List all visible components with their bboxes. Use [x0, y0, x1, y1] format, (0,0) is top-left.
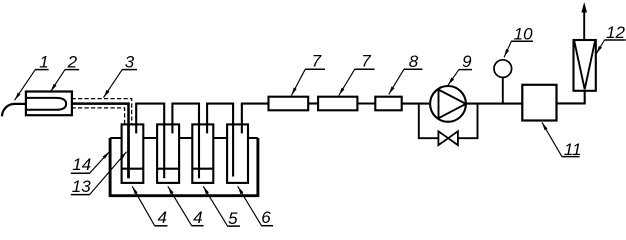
water bath 14 outline [110, 138, 258, 196]
label 7b leader [339, 69, 355, 95]
svg-text:11: 11 [564, 140, 582, 159]
label 14 arrowhead [103, 152, 110, 159]
label 4a underline [155, 225, 168, 227]
crossover pipe impinger1 to impinger2 [135, 104, 164, 179]
label 4b underline [192, 225, 204, 227]
label 1 leader [15, 70, 36, 101]
bypass loop wire [419, 104, 478, 139]
label 13 arrowhead [120, 152, 127, 159]
impinger 2 outlet stub [171, 104, 173, 134]
wire box 11 to rotameter riser [557, 91, 585, 104]
label 3 leader [104, 70, 123, 98]
label 12 arrowhead [596, 46, 602, 54]
impinger 1 liquid level [122, 168, 144, 170]
heated line 3 lower dashed jacket [72, 108, 125, 125]
gauge 10 circle [494, 60, 512, 78]
svg-text:12: 12 [606, 23, 625, 42]
label 10 leader [504, 41, 511, 57]
label 6 arrowhead [238, 186, 244, 194]
label 5 leader [203, 186, 227, 226]
gauge 10 stem [502, 77, 504, 103]
label 5 underline [227, 225, 240, 227]
label 2 arrowhead [51, 84, 57, 92]
wire 7a to 7b [308, 102, 318, 104]
svg-text:1: 1 [39, 52, 48, 71]
label 13 underline [71, 194, 90, 196]
label 14 leader [90, 152, 110, 174]
probe holder box 2 [26, 92, 72, 116]
label 4a arrowhead [132, 186, 138, 194]
label 7b underline [355, 68, 375, 70]
svg-text:10: 10 [514, 25, 533, 44]
svg-text:5: 5 [228, 209, 238, 228]
label 8 underline [404, 68, 423, 70]
impinger 3 liquid level [192, 168, 213, 170]
impinger 4 (first absorber) body [122, 124, 144, 182]
label 7a leader [291, 69, 305, 95]
svg-text:4: 4 [157, 208, 166, 227]
label 2 leader [51, 70, 65, 92]
svg-text:3: 3 [125, 52, 135, 71]
svg-text:7: 7 [361, 52, 371, 71]
water bath rim segments [110, 137, 258, 139]
label 1 underline [35, 69, 49, 71]
svg-text:6: 6 [261, 208, 271, 227]
label 3 underline [122, 69, 137, 71]
impinger 6 (empty droplet trap) body [227, 124, 248, 182]
bypass valve [438, 131, 458, 145]
drier box 8 [375, 97, 401, 111]
svg-text:9: 9 [462, 52, 472, 71]
wire from impinger 6 outlet to filter 7a [241, 103, 269, 105]
heated line 3 upper dashed jacket [72, 99, 132, 125]
impinger 4 outlet stub [241, 104, 243, 134]
label 2 underline [65, 69, 79, 71]
label 11 underline [562, 156, 580, 158]
pump 9 triangle [439, 90, 466, 119]
impinger 1 dip tube lower part [127, 124, 130, 178]
label 12 underline [604, 39, 626, 41]
exhaust arrow head [581, 2, 587, 13]
impinger 3 outlet stub [206, 104, 208, 134]
rotameter 12 float taper [574, 41, 595, 89]
labels with leader lines [15, 40, 605, 226]
svg-text:8: 8 [409, 52, 419, 71]
label 9 underline [459, 69, 472, 71]
label 6 underline [261, 225, 273, 227]
label 6 leader [238, 186, 262, 225]
label 11 leader [542, 122, 562, 156]
label 4a leader [132, 186, 155, 226]
crossover pipe impinger3 to impinger4 [206, 104, 233, 177]
svg-text:2: 2 [67, 52, 78, 71]
heated sample line 3 (solid core) [72, 104, 129, 179]
label 7a arrowhead [291, 88, 296, 96]
label 13 leader [90, 152, 127, 195]
label 4b arrowhead [168, 186, 174, 194]
label 8 arrowhead [389, 86, 395, 94]
label 1 arrowhead [15, 93, 21, 101]
filter box 7b [318, 97, 357, 111]
label 8 leader [389, 69, 404, 94]
svg-text:14: 14 [72, 155, 91, 174]
label 9 leader [448, 70, 459, 86]
svg-text:7: 7 [312, 52, 322, 71]
wire pump to box 11 [466, 103, 523, 105]
label 7a underline [305, 68, 325, 70]
probe inner tube [26, 98, 66, 110]
label 10 underline [511, 40, 533, 42]
rotameter 12 body [574, 40, 596, 91]
label 5 arrowhead [203, 186, 209, 194]
label 9 arrowhead [448, 78, 454, 86]
filter box 7a [269, 97, 309, 111]
svg-text:4: 4 [193, 208, 202, 227]
wire 7b to 8 [357, 102, 375, 104]
impinger 2 liquid level [157, 168, 179, 170]
label 7b arrowhead [339, 88, 345, 96]
label 14 underline [71, 172, 90, 174]
label 4b leader [168, 186, 192, 225]
probe nozzle 1 [2, 104, 26, 117]
box 11 [522, 85, 556, 121]
wire 8 to pump [402, 103, 431, 105]
label 12 leader [596, 40, 604, 54]
label 10 arrowhead [504, 49, 509, 57]
impinger 5 (third absorber) body [192, 124, 213, 182]
impinger 4 (second absorber) body [157, 124, 179, 182]
crossover pipe impinger2 to impinger3 [171, 104, 199, 179]
impinger 1 outlet stub [135, 104, 137, 134]
svg-text:13: 13 [72, 177, 91, 196]
pump 9 circle [430, 86, 466, 122]
label 3 arrowhead [104, 90, 110, 98]
exhaust arrow stem [583, 10, 585, 39]
label 11 arrowhead [542, 122, 548, 130]
